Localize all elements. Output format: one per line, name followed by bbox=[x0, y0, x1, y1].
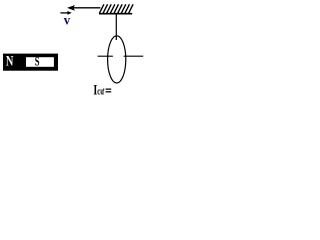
vector hat over v bbox=[60, 11, 71, 15]
string from ceiling to coil bbox=[115, 15, 117, 41]
axis line right stub bbox=[124, 55, 144, 57]
coil (suspended ring, side view ellipse) bbox=[108, 36, 126, 83]
svg-text:cư: cư bbox=[97, 87, 105, 98]
svg-text:v: v bbox=[64, 14, 70, 29]
axis line left stub bbox=[98, 55, 113, 57]
ceiling baseline bbox=[99, 13, 132, 15]
magnet S-pole white box bbox=[26, 57, 54, 67]
ceiling hatching bbox=[99, 4, 133, 13]
svg-text:N: N bbox=[6, 54, 14, 70]
svg-text:S: S bbox=[35, 55, 40, 69]
velocity arrow (long, pointing left from wall) bbox=[67, 5, 100, 11]
bar magnet body bbox=[3, 54, 58, 71]
